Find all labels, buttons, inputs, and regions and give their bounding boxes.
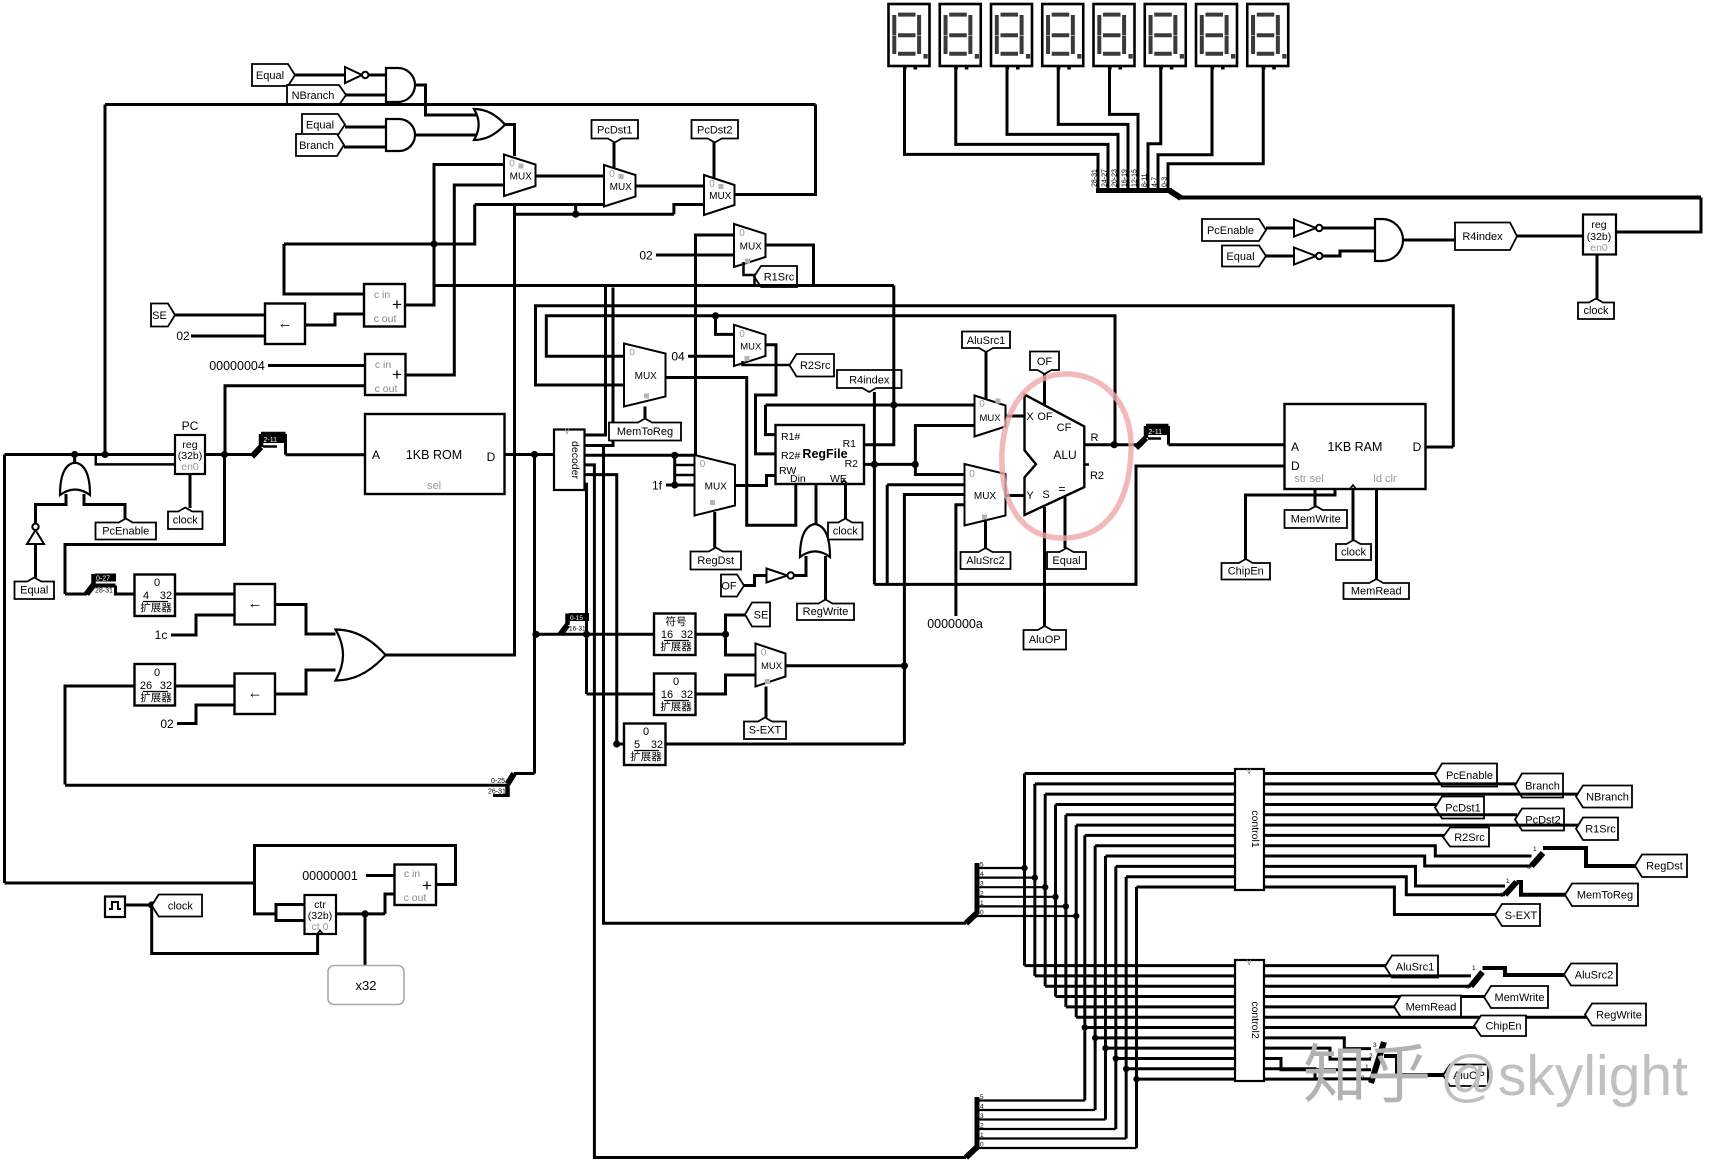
wire control1 out R2Src (1264, 834, 1444, 837)
wire lower fan bit 5 (977, 1099, 1085, 1101)
svg-text:0: 0 (154, 577, 160, 589)
svg-text:PcEnable: PcEnable (102, 525, 149, 537)
svg-text:20-23: 20-23 (1112, 169, 1119, 187)
svg-text:x32: x32 (356, 978, 377, 993)
wire AND1 out to OR1 (415, 85, 476, 115)
net label MemRead (ctl out) (1394, 996, 1461, 1018)
wire PC enable second line (96, 455, 175, 465)
wire R4index tap (873, 392, 876, 464)
register reg(32b) display (1583, 215, 1616, 255)
mux MUX1 (branch target select) (504, 155, 536, 197)
wire R1 number rail (766, 404, 975, 407)
svg-text:PcDst1: PcDst1 (597, 125, 632, 137)
wire display D2 to bus (956, 66, 1108, 189)
net label MemRead (1344, 579, 1410, 599)
probe x32 box (328, 966, 404, 1005)
svg-text:MUX: MUX (974, 491, 997, 502)
svg-text:←: ← (248, 685, 263, 702)
mux select squares (519, 164, 524, 169)
svg-text:扩展器: 扩展器 (140, 601, 172, 614)
net label R1Src (754, 266, 797, 287)
extender 26to32 box (135, 664, 176, 706)
mux MUX-Y (AluSrc2) (965, 464, 1006, 526)
clock tunnel at PC (189, 474, 192, 508)
counter ctr(32b) box (305, 895, 337, 934)
wire Equal to AND2 (345, 126, 386, 129)
svg-text:02: 02 (176, 329, 190, 343)
svg-text:ChipEn: ChipEn (1485, 1021, 1521, 1033)
clock source square (105, 897, 125, 918)
svg-text:3: 3 (980, 1113, 984, 1120)
svg-text:0-3: 0-3 (1162, 177, 1169, 187)
seven-segment display D1 (889, 4, 930, 66)
wire MUX2 out to MUX3 (636, 185, 705, 188)
wire instr rail to extender2 (65, 686, 135, 785)
svg-text:0: 0 (700, 459, 706, 470)
sign extender 16to32 box (654, 614, 696, 656)
and gate AND3 (1375, 219, 1403, 261)
wire sign ext out (696, 633, 726, 636)
svg-text:c in: c in (404, 868, 421, 880)
svg-text:NBranch: NBranch (1586, 791, 1629, 803)
net label PcDst2 (692, 120, 739, 143)
shifter box (left arrow) top (265, 304, 305, 345)
svg-text:PcEnable: PcEnable (1446, 770, 1493, 782)
svg-text:符号: 符号 (666, 615, 687, 628)
svg-text:2: 2 (980, 890, 984, 897)
mux MUX2 (PcDst1) (604, 165, 636, 207)
net label ChipEn (1222, 559, 1271, 580)
wire RAM ld to MemRead (1375, 489, 1378, 579)
splitter 0-27/28-31 (65, 593, 87, 596)
net label MemToReg (ctl out) (1565, 884, 1638, 907)
or gate OR1 (branch decision) (474, 109, 505, 140)
svg-text:4: 4 (980, 1104, 984, 1111)
wire RAM D out loop (1426, 446, 1454, 449)
svg-text:1c: 1c (155, 628, 168, 642)
net label NBranch (287, 85, 346, 105)
mux MUX3 (PcDst2) (704, 175, 735, 215)
svg-text:28-31: 28-31 (95, 588, 113, 595)
svg-text:ALU: ALU (1053, 448, 1076, 462)
svg-text:AluSrc2: AluSrc2 (1575, 969, 1614, 981)
wire jump field rail to extender2 (65, 784, 508, 787)
wire control1 out S-EXT (1264, 887, 1497, 914)
adder U-adder2 box (PC + 4) (365, 354, 406, 395)
wire R4index to reg (1517, 235, 1583, 238)
wire bus rail corner (1616, 198, 1701, 233)
net label AluSrc2 (ctl out) (1564, 964, 1617, 986)
svg-text:0: 0 (761, 648, 767, 659)
wire lower fan bit 1 (977, 1137, 1126, 1139)
seven-segment display D2 (940, 4, 981, 66)
wire splitter to extender1 (116, 586, 135, 595)
mux MUX-X (AluSrc1) (975, 396, 1006, 437)
svg-text:1: 1 (1472, 965, 1476, 972)
svg-text:1: 1 (1506, 878, 1510, 885)
wire shamt into extender (617, 743, 624, 746)
wire upper fan bit 3 (977, 886, 1045, 888)
net label R1Src (ctl out) (1576, 818, 1618, 841)
svg-text:16-19: 16-19 (1122, 169, 1129, 187)
wire MUX8 out to Y-mux column (786, 664, 905, 667)
wire MUX4 select hook to R1Src tunnel (744, 262, 757, 275)
wire 1f to MUX6 (666, 484, 695, 487)
wire ALU R2 stub (1084, 463, 1089, 466)
svg-text:Y: Y (1026, 490, 1034, 502)
svg-text:知乎: 知乎 (1303, 1039, 1431, 1111)
svg-text:←: ← (278, 315, 293, 332)
svg-text:RegWrite: RegWrite (1596, 1009, 1642, 1021)
svg-text:00000004: 00000004 (209, 359, 265, 373)
wire RAM str to MemWrite (1314, 489, 1317, 506)
extender 4to32 box (135, 575, 176, 617)
net label R2Src (790, 354, 835, 377)
wire R2 out line (864, 463, 915, 466)
svg-text:MUX: MUX (635, 371, 658, 382)
wire display D6 to bus (1148, 66, 1161, 189)
svg-text:MUX: MUX (740, 341, 762, 352)
seven-segment display D3 (991, 4, 1032, 66)
svg-text:16-31: 16-31 (569, 626, 586, 633)
wire adder riser to rail (433, 244, 436, 286)
and gate AND1 (NBranch & !Equal) (386, 68, 415, 102)
wire MUX5 select hook (743, 361, 792, 365)
wire upper fan bit 5 (977, 867, 1025, 869)
wire OR3 left input (36, 494, 67, 527)
svg-text:sel: sel (427, 480, 441, 492)
wire shamt/imm vertical to Y-mux in2 (904, 495, 965, 745)
svg-text:4-7: 4-7 (1152, 177, 1159, 187)
net label MemToReg (609, 419, 681, 441)
wire instruction bus down (533, 455, 536, 774)
svg-text:Equal: Equal (1052, 555, 1080, 567)
svg-text:Equal: Equal (20, 585, 48, 597)
wire control1 out RegDst bits (1264, 846, 1532, 856)
wire SE to shifter3 (175, 314, 265, 317)
wire display D7 to bus (1158, 66, 1212, 189)
svg-text:AluSrc1: AluSrc1 (967, 335, 1006, 347)
svg-text:c out: c out (404, 892, 427, 904)
wire control2 out ChipEn (1264, 1026, 1476, 1029)
wire reg clock stem (1596, 255, 1599, 299)
svg-text:+: + (392, 365, 402, 384)
svg-text:str sel: str sel (1294, 473, 1323, 485)
wire Equal to NOT (295, 74, 345, 77)
wire control2 out AluSrc1 (1264, 964, 1387, 967)
svg-text:S: S (1042, 489, 1049, 501)
net label SE (shift) (151, 304, 175, 327)
svg-text:0: 0 (969, 469, 975, 480)
splitter 0-15/16-31 (561, 625, 568, 634)
net label AluSrc1 (962, 332, 1010, 353)
svg-text:16: 16 (661, 689, 673, 701)
svg-text:R2: R2 (1090, 470, 1104, 482)
wire to AluOP label (1384, 1056, 1445, 1075)
svg-text:0: 0 (980, 910, 984, 917)
svg-text:32: 32 (160, 680, 172, 692)
svg-text:MemRead: MemRead (1406, 1001, 1457, 1013)
adder U-adder1 box (branch offset + PC4) (364, 284, 405, 327)
svg-text:26: 26 (140, 680, 152, 692)
svg-text:RegWrite: RegWrite (803, 606, 849, 618)
svg-text:扩展器: 扩展器 (660, 640, 692, 653)
wire PC loop top rail (105, 103, 816, 106)
clock tunnel at RegFile (844, 484, 847, 519)
svg-text:R2Src: R2Src (800, 360, 831, 372)
svg-text:SE: SE (152, 310, 167, 322)
wire OR-WE left input from NOT (794, 556, 807, 576)
svg-text:PC: PC (182, 419, 199, 433)
wire 00000004 to adder2 (268, 364, 365, 367)
svg-text:reg: reg (1591, 219, 1606, 231)
wire lower fan bit 2 (977, 1128, 1116, 1130)
wire R2# input from MUX5 zigzag (756, 345, 777, 454)
shifter box2 (left arrow) (235, 674, 276, 715)
wire AluOP stem (1043, 507, 1046, 626)
annotation red circle around ALU (1002, 374, 1131, 538)
svg-text:D: D (487, 450, 496, 464)
clock tunnel at RAM (1336, 540, 1371, 560)
svg-text:0000000a: 0000000a (927, 617, 983, 631)
wire control2 out RegWrite (1264, 1016, 1587, 1019)
wire decoder out3 (R1 field) to MUX6 (585, 454, 697, 457)
or gate OR2 (target merge) (336, 630, 386, 681)
net label S-EXT (ctl out) (1495, 904, 1540, 926)
net label RegWrite (ctl out) (1585, 1004, 1646, 1026)
wire AluSrc2 select stem (984, 517, 987, 548)
wire PcDst2 to MUX3 select (713, 143, 716, 179)
wire AluSrc1 to MUX-X select (985, 352, 988, 399)
svg-text:3: 3 (980, 881, 984, 888)
wire lower fan bit 4 (977, 1109, 1095, 1111)
svg-text:clock: clock (833, 525, 859, 537)
wire MUX-X out to ALU X (1006, 415, 1025, 418)
wire AND3 to R4index (1403, 239, 1456, 242)
wire decoder out4 control2 feed down (585, 465, 967, 1158)
register file RegFile box (776, 425, 865, 484)
svg-text:ChipEn: ChipEn (1228, 566, 1264, 578)
wire NOT3 to Equal tunnel (34, 544, 37, 578)
svg-text:A: A (372, 448, 380, 462)
wire upper fan bit 1 (977, 905, 1066, 907)
svg-text:0: 0 (739, 228, 745, 239)
svg-text:RegFile: RegFile (802, 447, 847, 461)
svg-text:1KB ROM: 1KB ROM (406, 448, 462, 462)
wire ctr to x32 probe (364, 914, 367, 966)
net label S-EXT (744, 718, 786, 740)
svg-text:MUX: MUX (709, 191, 732, 202)
net label PcEnable (ctl out) (1435, 764, 1497, 787)
svg-text:MemToReg: MemToReg (1577, 890, 1633, 902)
wire upper fan bit 2 (977, 896, 1056, 898)
wire control1 out PcEnable (1264, 772, 1437, 775)
svg-text:Branch: Branch (1525, 780, 1560, 792)
svg-text:R1: R1 (843, 438, 857, 450)
wire decoder out6 down (imm16) (585, 484, 587, 694)
net label Equal (top-right) (1222, 246, 1266, 267)
svg-text:WE: WE (830, 473, 847, 485)
wire step into MUX3 in1 (674, 205, 704, 215)
svg-text:RegDst: RegDst (1646, 861, 1683, 873)
svg-text:MemToReg: MemToReg (617, 426, 673, 438)
wire to AluSrc2 label (1483, 968, 1567, 975)
wire WE OR gate (800, 524, 830, 557)
wire bus diagonal (1170, 191, 1181, 198)
svg-text:c out: c out (374, 313, 397, 325)
splitter AluSrc2 combine (1471, 972, 1483, 986)
svg-text:R1#: R1# (781, 431, 800, 443)
wire imm16 line to sign extender (536, 633, 654, 636)
shifter box1 (left arrow) (235, 584, 276, 625)
wire ctr out to adder3 cin (385, 894, 395, 914)
seven-segment display D6 (1145, 4, 1186, 66)
wire MUX5 in0 from ALU-R rail (716, 316, 735, 335)
wire branch line into MUX2 in1 (475, 203, 604, 206)
wire PcEnable to NOT5 (1266, 227, 1294, 230)
wire OR2 out to jump rail (386, 205, 515, 656)
svg-text:32: 32 (681, 629, 693, 641)
svg-text:0: 0 (979, 399, 985, 410)
svg-text:+: + (392, 295, 402, 314)
svg-text:control1: control1 (1249, 810, 1261, 848)
svg-text:0: 0 (509, 159, 515, 170)
svg-text:2-11: 2-11 (264, 437, 278, 444)
wire OR3 right input from PcEnable (84, 494, 125, 519)
net label R4index (top-right) (1455, 223, 1517, 251)
svg-text:=: = (1058, 482, 1065, 496)
svg-text:S-EXT: S-EXT (1505, 910, 1538, 922)
svg-text:ld clr: ld clr (1373, 473, 1397, 485)
svg-text:MUX: MUX (761, 661, 783, 672)
svg-text:c out: c out (375, 383, 398, 395)
svg-text:control2: control2 (1249, 1001, 1261, 1039)
svg-text:0-27: 0-27 (96, 576, 110, 583)
wire clock feedback down (152, 905, 318, 954)
net label MemWrite (1285, 506, 1348, 528)
wire display D1 to bus (905, 66, 1099, 189)
seven-segment display D5 (1094, 4, 1135, 66)
svg-text:0: 0 (609, 169, 615, 180)
wire clock source to label (125, 904, 158, 907)
svg-text:en0: en0 (181, 461, 199, 473)
wire display D3 to bus (1007, 66, 1118, 189)
svg-text:Equal: Equal (1226, 251, 1254, 263)
svg-text:R4index: R4index (1462, 231, 1503, 243)
net label RegDst (ctl out) (1635, 855, 1687, 878)
wire lower fan bit 3 (977, 1118, 1105, 1120)
mux MUX7 (MemToReg) (624, 344, 666, 407)
wire decoder out5 down (shamt) (585, 475, 617, 744)
wire ROM D to decoder (505, 453, 555, 456)
svg-text:5: 5 (980, 1094, 984, 1101)
svg-text:NBranch: NBranch (292, 90, 335, 102)
svg-text:0: 0 (1500, 892, 1504, 899)
svg-text:RegDst: RegDst (697, 555, 734, 567)
svg-text:MemWrite: MemWrite (1495, 992, 1545, 1004)
wire RAM clk to clock (1352, 489, 1355, 540)
clock tunnel top-right (1578, 299, 1614, 320)
wire adder2 result to MUX1 in1 (406, 185, 505, 375)
net label R2Src (ctl out) (1443, 828, 1489, 847)
svg-text:0-15: 0-15 (570, 615, 583, 622)
net label AluOP (1024, 626, 1067, 650)
wire Branch to AND2 (344, 146, 386, 149)
wire OF to NOT4 (744, 576, 767, 586)
wire Y-mux in1 from R4index rail (886, 485, 889, 585)
wire control2 out AluOP bits (1264, 1038, 1371, 1049)
wire control1 out PcDst1 (1264, 803, 1437, 806)
wire PC to adder2 in2 (225, 386, 365, 455)
net label ChipEn (ctl out) (1474, 1016, 1526, 1037)
wire R4index down to store rail (873, 464, 876, 584)
wire loop into adder1 c-in (284, 244, 364, 294)
inverter NOT5 (1294, 220, 1316, 237)
svg-text:0: 0 (673, 676, 679, 688)
wire Y-mux constant input (956, 505, 965, 616)
inverter NOT4 (OF) (767, 569, 788, 583)
svg-text:R1Src: R1Src (1585, 824, 1616, 836)
wire control2 out AluSrc2 bits (1264, 974, 1471, 977)
svg-text:←: ← (248, 595, 263, 612)
inverter NOT1 top-left (345, 67, 362, 83)
splitter RegDst combine (1532, 853, 1544, 866)
net label SE (imm) (745, 603, 770, 627)
control box control2 (1235, 960, 1264, 1081)
svg-text:Din: Din (790, 473, 806, 485)
wire adder1 result to MUX1 in0 (405, 165, 504, 306)
net label RegWrite (797, 600, 854, 621)
wire NOT6 to AND3 (1323, 251, 1376, 256)
wire to RegDst label (1543, 848, 1637, 866)
svg-text:2: 2 (980, 1123, 984, 1130)
wire to SE tunnel (726, 615, 748, 634)
svg-text:5: 5 (634, 739, 640, 751)
memory 1KB ROM (365, 414, 505, 494)
extender 5to32 box (shamt) (624, 724, 666, 766)
net label NBranch (ctl out) (1576, 786, 1632, 808)
wire Equal to NOT6 (1266, 255, 1294, 258)
wire MUX6 extra inputs (673, 455, 676, 485)
wire 00000001 to adder3 (366, 874, 395, 877)
wire jump target rail to MUX2/MUX3 (515, 213, 674, 216)
svg-text:32: 32 (681, 689, 693, 701)
svg-text:PcDst1: PcDst1 (1445, 802, 1480, 814)
wire display D4 to bus (1058, 66, 1128, 189)
wire extender1 to shifter1 (175, 593, 235, 596)
wire RAM sel to ChipEn (1246, 489, 1336, 559)
splitter AluOP combine (1371, 1042, 1384, 1083)
svg-text:12-15: 12-15 (1132, 169, 1139, 187)
wire shifter1 out to OR2 (275, 605, 336, 635)
net label Branch (ctl out) (1515, 774, 1563, 798)
svg-text:1KB RAM: 1KB RAM (1328, 440, 1383, 454)
svg-text:OF: OF (721, 580, 737, 592)
svg-text:8-11: 8-11 (1142, 173, 1149, 187)
svg-text:R2: R2 (845, 458, 859, 470)
wire MUX6 select from RegDst (713, 512, 716, 548)
svg-text:Branch: Branch (299, 140, 334, 152)
wire display D8 to bus (1168, 66, 1263, 189)
alu ALU body (1025, 395, 1085, 515)
wire display bus bar (1096, 188, 1172, 193)
wire MUX7 select from MemToReg tunnel (644, 407, 647, 420)
wire upper fan bit 0 (977, 915, 1076, 917)
mux MUX5 (R2Src) (734, 325, 766, 366)
wire RAM-D return rail (outer) (536, 306, 1454, 447)
svg-text:4: 4 (980, 871, 984, 878)
splitter MemToReg combine (1505, 882, 1517, 895)
